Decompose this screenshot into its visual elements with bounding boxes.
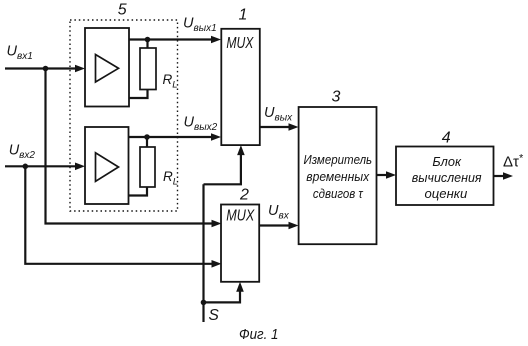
- dashed box 5: [70, 20, 178, 211]
- svg-text:RL: RL: [163, 72, 178, 91]
- svg-text:Блок: Блок: [432, 154, 461, 169]
- arrowhead output dtau: [503, 172, 513, 180]
- svg-text:Uвых1: Uвых1: [183, 16, 217, 35]
- amplifier block A1: [85, 28, 129, 107]
- svg-text:временных: временных: [306, 169, 369, 184]
- wire S vertical: [202, 184, 204, 322]
- wire input Uvx1: [5, 67, 78, 69]
- arrowhead into block3 lower: [289, 222, 299, 230]
- amplifier A2 triangle: [96, 153, 119, 182]
- arrowhead into block4: [386, 171, 396, 179]
- wire S branch to MUX2: [204, 288, 241, 302]
- junction dot A1 out: [145, 37, 151, 43]
- wire resistor RL1 top lead: [146, 40, 148, 49]
- svg-text:4: 4: [442, 130, 451, 147]
- svg-text:Uвх: Uвх: [268, 203, 290, 222]
- svg-text:Uвых: Uвых: [264, 105, 293, 124]
- arrowhead into MUX1 upper: [211, 36, 221, 44]
- wire input Uvx2: [5, 165, 78, 167]
- wire A1 output to MUX1: [129, 38, 214, 40]
- arrowhead S into MUX1: [237, 145, 245, 155]
- svg-text:5: 5: [118, 2, 127, 19]
- svg-text:сдвигов τ: сдвигов τ: [313, 186, 364, 201]
- block 4 estimator: [396, 147, 494, 206]
- wire A2 output to MUX1: [129, 136, 215, 138]
- wire resistor RL2 top lead: [146, 137, 148, 147]
- wire S branch to MUX1: [204, 152, 241, 184]
- wire MUX1 output Uvyx: [260, 126, 291, 128]
- svg-text:2: 2: [239, 187, 249, 204]
- svg-text:Δτ*: Δτ*: [503, 153, 524, 171]
- svg-text:1: 1: [239, 7, 248, 24]
- svg-text:3: 3: [332, 88, 341, 105]
- arrowhead into A2: [75, 163, 85, 171]
- svg-text:RL: RL: [163, 169, 178, 188]
- wire branch Uvx1 to MUX2: [46, 69, 216, 224]
- multiplexer U2 MUX: [221, 205, 259, 282]
- resistor RL1: [140, 48, 156, 90]
- junction dot Uvx2: [23, 164, 29, 170]
- arrowhead into A1: [75, 65, 85, 73]
- svg-text:оценки: оценки: [425, 186, 468, 201]
- wire MUX2 output Uvx: [259, 224, 291, 226]
- arrowhead into MUX2 upper: [212, 220, 222, 228]
- resistor RL2: [140, 147, 155, 187]
- junction dot Uvx1: [43, 66, 49, 72]
- arrowhead into MUX2 lower: [212, 260, 222, 268]
- wire branch Uvx2 to MUX2: [25, 166, 215, 263]
- arrowhead into MUX1 lower: [211, 133, 221, 141]
- svg-text:Фиг. 1: Фиг. 1: [239, 327, 279, 343]
- wire block4 output: [494, 175, 507, 177]
- multiplexer U1 MUX: [221, 29, 259, 145]
- arrowhead into block3 upper: [289, 123, 299, 131]
- svg-text:вычисления: вычисления: [412, 170, 482, 185]
- block 3 measurer: [299, 107, 377, 244]
- svg-text:MUX: MUX: [226, 208, 255, 225]
- svg-text:Измеритель: Измеритель: [304, 152, 373, 167]
- amplifier A1 triangle: [96, 55, 119, 83]
- wire block3 to block4: [377, 174, 390, 176]
- junction dot A2 out: [144, 134, 150, 140]
- wire resistor RL2 bottom loop: [129, 187, 148, 196]
- svg-text:Uвх2: Uвх2: [9, 143, 36, 162]
- svg-text:S: S: [209, 307, 220, 324]
- arrowhead S into MUX2: [236, 282, 244, 292]
- svg-text:Uвых2: Uвых2: [184, 115, 218, 134]
- svg-text:Uвх1: Uвх1: [7, 44, 33, 63]
- wire resistor RL1 bottom loop: [129, 90, 148, 99]
- svg-text:MUX: MUX: [226, 35, 254, 52]
- junction dot S: [201, 300, 207, 306]
- amplifier block A2: [85, 127, 129, 204]
